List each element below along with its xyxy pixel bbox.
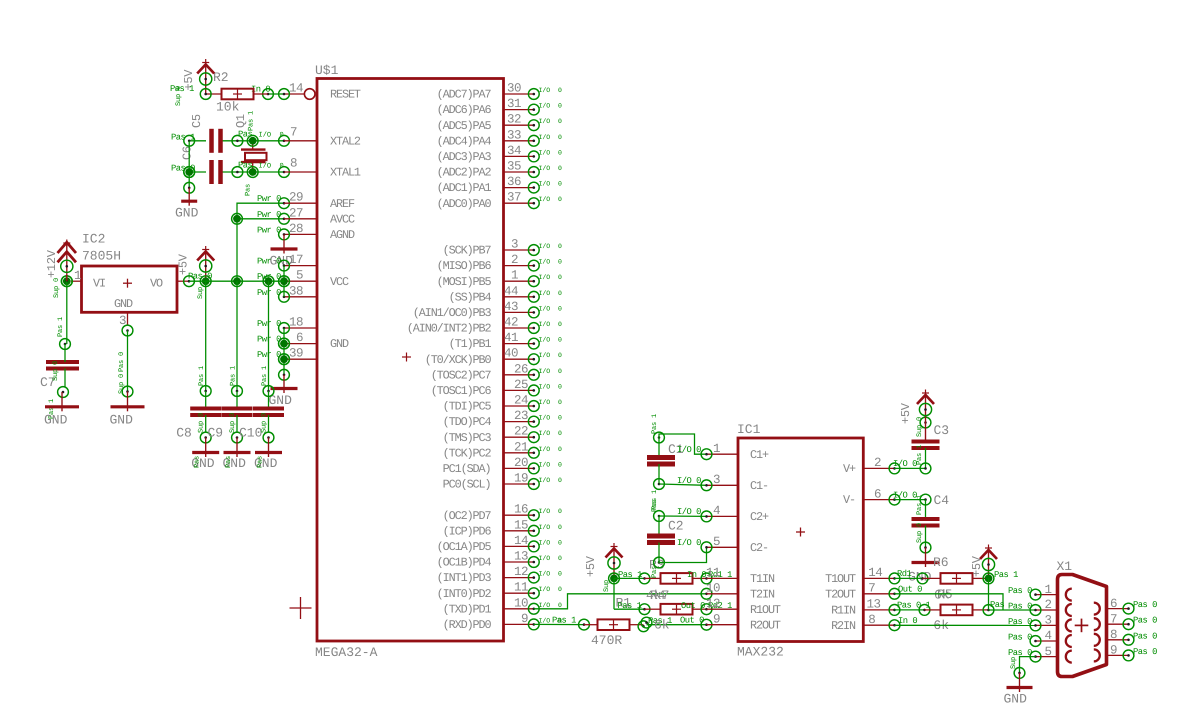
svg-text:GND: GND — [1004, 692, 1028, 707]
svg-text:R5: R5 — [937, 587, 953, 602]
svg-text:VO: VO — [150, 277, 163, 291]
pin 14 (OC1A)PD5 — [437, 534, 562, 554]
svg-text:Pas 1: Pas 1 — [57, 317, 65, 337]
pin 31 (ADC6)PA6 — [437, 97, 562, 117]
svg-text:I/O 0: I/O 0 — [539, 477, 563, 484]
pin 27 AVCC stub — [257, 206, 317, 220]
ground (X1) — [1004, 673, 1033, 707]
pin 3 GND stub — [119, 312, 133, 336]
svg-text:14: 14 — [289, 82, 303, 96]
svg-text:Pas 0: Pas 0 — [1008, 617, 1032, 627]
svg-text:Pwr 0: Pwr 0 — [257, 210, 281, 220]
svg-text:C1+: C1+ — [750, 448, 769, 462]
pin AGND circle — [279, 229, 290, 240]
svg-text:10: 10 — [514, 596, 528, 610]
svg-text:(TMS)PC3: (TMS)PC3 — [443, 431, 492, 445]
pin 19 PC0(SCL) — [443, 472, 562, 492]
svg-text:R6: R6 — [933, 555, 949, 570]
ground (C8) — [191, 438, 219, 472]
svg-text:(INT1)PD3: (INT1)PD3 — [437, 571, 492, 585]
svg-text:Pas 1: Pas 1 — [994, 570, 1018, 580]
svg-text:36: 36 — [507, 175, 521, 189]
svg-text:I/O 0: I/O 0 — [893, 491, 917, 501]
svg-text:9: 9 — [713, 613, 720, 627]
capacitor C2 — [647, 500, 684, 568]
pin 24 (TDI)PC5 — [443, 394, 562, 414]
svg-text:(TDO)PC4: (TDO)PC4 — [443, 415, 492, 429]
capacitor C3 — [912, 417, 950, 474]
svg-text:I/O 0: I/O 0 — [539, 181, 563, 188]
X1 pin 7 — [1107, 612, 1158, 629]
supply +5V (R2) — [170, 59, 214, 106]
svg-text:11: 11 — [514, 581, 528, 595]
junction AVCC — [232, 213, 243, 224]
svg-text:6: 6 — [1110, 597, 1117, 611]
capacitor C4 — [912, 493, 950, 553]
svg-text:6: 6 — [874, 487, 881, 501]
svg-text:23: 23 — [514, 409, 528, 423]
wire +5V junction to R5 — [988, 578, 990, 610]
svg-text:7: 7 — [290, 126, 297, 140]
svg-text:30: 30 — [507, 82, 521, 96]
wire rail to C9 — [230, 281, 238, 391]
ground (C10) — [254, 438, 282, 472]
svg-text:AGND: AGND — [330, 228, 355, 242]
svg-text:RESET: RESET — [330, 88, 361, 102]
svg-text:Pas 1: Pas 1 — [916, 445, 924, 465]
svg-text:I/O 0: I/O 0 — [259, 130, 284, 139]
svg-text:PC1(SDA): PC1(SDA) — [443, 462, 491, 476]
svg-text:4: 4 — [1045, 629, 1052, 643]
X1 pin 5 — [1008, 645, 1058, 662]
svg-text:I/O 0: I/O 0 — [677, 476, 701, 486]
resistor R3 — [645, 558, 733, 584]
junction VI — [61, 276, 72, 287]
X1 contacts — [1066, 589, 1100, 663]
svg-text:I/O 0: I/O 0 — [539, 274, 563, 281]
svg-text:Pas: Pas — [238, 129, 253, 139]
resistor R6 — [923, 555, 989, 603]
svg-text:C3: C3 — [934, 423, 950, 438]
pin 2 (MISO)PB6 — [437, 253, 562, 273]
supply +5V (MAX232 left) — [584, 543, 642, 592]
wire to DB9 pin2 — [989, 609, 1036, 611]
IC1 pin 6 stub — [863, 487, 900, 505]
svg-text:38: 38 — [289, 284, 303, 298]
svg-text:(TOSC1)PC6: (TOSC1)PC6 — [431, 384, 492, 398]
pin 11 (INT0)PD2 — [437, 581, 562, 601]
svg-text:14: 14 — [868, 566, 882, 580]
svg-text:(TXD)PD1: (TXD)PD1 — [443, 602, 492, 616]
svg-text:C9: C9 — [208, 426, 224, 441]
resistor R5 — [925, 600, 1005, 633]
wire XTAL1 net — [184, 167, 317, 178]
svg-text:14: 14 — [514, 534, 528, 548]
X1 pin 2 — [1008, 598, 1058, 615]
capacitor C9 — [208, 386, 253, 443]
pin 26 (TOSC2)PC7 — [431, 362, 562, 382]
pin 35 (ADC2)PA2 — [437, 160, 562, 180]
svg-text:0 1: 0 1 — [916, 601, 931, 611]
wire AVCC — [237, 213, 289, 224]
pin 34 (ADC3)PA3 — [437, 144, 562, 164]
svg-text:XTAL1: XTAL1 — [330, 166, 361, 180]
wire rail to C10 — [261, 281, 269, 391]
svg-text:I/O 0: I/O 0 — [539, 383, 563, 390]
svg-text:3: 3 — [1045, 614, 1052, 628]
svg-text:(TOSC2)PC7: (TOSC2)PC7 — [431, 368, 492, 382]
svg-text:(ADC7)PA7: (ADC7)PA7 — [437, 88, 492, 102]
pin 10 (TXD)PD1 — [443, 596, 562, 616]
svg-text:GND: GND — [114, 297, 133, 311]
pin 28 AGND stub — [257, 222, 317, 236]
svg-text:Pas 0: Pas 0 — [118, 352, 126, 372]
svg-text:I/O 0: I/O 0 — [539, 103, 563, 110]
junction XTAL1/crystal — [232, 167, 258, 178]
svg-text:39: 39 — [289, 347, 303, 361]
X1 pin 9 — [1107, 644, 1158, 661]
svg-text:37: 37 — [507, 191, 521, 205]
svg-text:Pas: Pas — [238, 161, 253, 171]
pin 41 (T1)PB1 — [449, 331, 562, 351]
IC1 pin 13 stub — [863, 598, 900, 616]
svg-text:R2IN: R2IN — [831, 619, 856, 633]
svg-text:C2: C2 — [668, 519, 684, 534]
svg-text:8: 8 — [868, 613, 875, 627]
svg-text:Pas: Pas — [225, 456, 233, 468]
svg-text:I/O 0: I/O 0 — [677, 538, 701, 548]
svg-text:26: 26 — [514, 362, 528, 376]
svg-text:In 0: In 0 — [898, 616, 917, 626]
capacitor C1 — [647, 414, 684, 510]
svg-text:C10: C10 — [239, 426, 262, 441]
svg-text:Sup 0: Sup 0 — [916, 417, 924, 437]
svg-text:T2IN: T2IN — [750, 587, 775, 601]
svg-text:(MOSI)PB5: (MOSI)PB5 — [437, 275, 492, 289]
IC1 pin 1 stub — [707, 442, 739, 456]
svg-text:27: 27 — [289, 206, 303, 220]
svg-text:11: 11 — [706, 566, 720, 580]
crystal Q1 — [234, 111, 267, 196]
X1 pin 4 — [1008, 629, 1058, 646]
svg-text:Pwr 0: Pwr 0 — [257, 257, 281, 267]
svg-text:MEGA32-A: MEGA32-A — [315, 645, 378, 660]
junction rail at +5V — [200, 276, 211, 287]
svg-text:32: 32 — [507, 113, 521, 127]
svg-text:15: 15 — [514, 518, 528, 532]
svg-text:3: 3 — [511, 238, 518, 252]
svg-text:I/O 0: I/O 0 — [539, 555, 563, 562]
svg-text:AREF: AREF — [330, 197, 355, 211]
wire PD0 to R1 — [534, 615, 590, 630]
svg-text:Pas 1: Pas 1 — [171, 133, 195, 143]
junction +5V/R6 — [983, 573, 994, 584]
svg-text:Pas: Pas — [245, 184, 253, 196]
svg-text:19: 19 — [514, 472, 528, 486]
svg-text:I/O 0: I/O 0 — [539, 446, 563, 453]
svg-text:Pas 0: Pas 0 — [1008, 586, 1032, 596]
svg-text:+5V: +5V — [584, 555, 598, 577]
svg-text:6k: 6k — [654, 618, 670, 633]
svg-text:I/O 0: I/O 0 — [677, 445, 701, 455]
wire C1+ to pin1 — [659, 434, 712, 460]
svg-text:T2OUT: T2OUT — [825, 587, 856, 601]
svg-text:I/O 0: I/O 0 — [539, 539, 563, 546]
svg-text:8: 8 — [290, 157, 297, 171]
wire R1 to R2OUT — [638, 615, 712, 632]
pin 29 AREF stub — [257, 191, 317, 205]
IC1 pin 14 stub — [863, 566, 900, 584]
pin 16 (OC2)PD7 — [443, 503, 562, 523]
U$1 left pin name labels — [330, 88, 361, 352]
svg-text:(SS)PB4: (SS)PB4 — [449, 290, 492, 304]
ground (IC2) — [110, 392, 145, 428]
svg-text:C8: C8 — [176, 426, 192, 441]
wire X1 pin5 to GND — [1010, 657, 1036, 679]
svg-text:+5V: +5V — [970, 555, 984, 577]
svg-text:C1-: C1- — [750, 479, 768, 493]
supply +5V (C3) — [899, 390, 934, 425]
pin 15 (ICP)PD6 — [443, 518, 562, 538]
svg-text:(T0/XCK)PB0: (T0/XCK)PB0 — [425, 353, 492, 367]
svg-text:I/O 0: I/O 0 — [539, 134, 563, 141]
wire PD1 to T2IN — [534, 588, 712, 608]
IC IC1 MAX232 body — [737, 422, 863, 660]
svg-text:I/O 0: I/O 0 — [539, 415, 563, 422]
U$1 origin cross — [402, 353, 411, 362]
supply +5V (DB9) — [970, 545, 1018, 581]
svg-text:24: 24 — [514, 394, 528, 408]
wire C2+ to pin4 — [659, 507, 712, 522]
svg-text:13: 13 — [514, 550, 528, 564]
svg-text:3: 3 — [713, 473, 720, 487]
svg-text:41: 41 — [504, 331, 518, 345]
svg-text:MAX232: MAX232 — [737, 645, 784, 660]
junction +5V/T1IN — [609, 573, 620, 584]
svg-text:XTAL2: XTAL2 — [330, 134, 361, 148]
svg-text:T1IN: T1IN — [750, 572, 775, 586]
svg-text:I/O 0: I/O 0 — [539, 430, 563, 437]
svg-text:I/O 0: I/O 0 — [539, 586, 563, 593]
svg-text:PC0(SCL): PC0(SCL) — [443, 478, 491, 492]
svg-text:V-: V- — [843, 493, 855, 507]
svg-text:1: 1 — [713, 442, 720, 456]
pin 44 (SS)PB4 — [449, 284, 562, 304]
svg-text:I/O 0: I/O 0 — [893, 459, 917, 469]
supply +12V — [45, 240, 76, 299]
IC1 pin 5 stub — [707, 535, 739, 549]
X1 pin 8 — [1107, 628, 1158, 645]
junction rail C9/AVCC column — [232, 276, 243, 287]
svg-text:31: 31 — [507, 97, 521, 111]
svg-text:I/O 0: I/O 0 — [539, 461, 563, 468]
svg-text:1: 1 — [1045, 583, 1052, 597]
svg-text:C2-: C2- — [750, 541, 768, 555]
IC1 pin name labels — [750, 448, 856, 633]
sheet origin cross — [290, 597, 312, 619]
svg-text:9: 9 — [1110, 644, 1117, 658]
svg-text:(ADC0)PA0: (ADC0)PA0 — [437, 197, 492, 211]
connector X1 DB9 body — [1057, 559, 1107, 677]
pin 1 VI stub — [71, 269, 82, 283]
svg-text:C4: C4 — [934, 493, 950, 508]
svg-text:Pas 1: Pas 1 — [552, 615, 576, 625]
svg-text:Sup: Sup — [1010, 657, 1018, 669]
junction rail C10 column — [263, 276, 274, 287]
wire R1IN to R5 — [895, 601, 931, 616]
svg-text:7805H: 7805H — [82, 249, 121, 264]
svg-text:4: 4 — [713, 504, 720, 518]
resistor R2 — [206, 70, 268, 115]
ground (C7) — [44, 392, 79, 428]
ground (U$1 GND pins) — [269, 375, 298, 408]
svg-text:V+: V+ — [843, 462, 856, 476]
IC U$1 MEGA32-A body — [315, 63, 504, 660]
wire VCC pins vertical — [283, 266, 285, 297]
svg-text:I/O 0: I/O 0 — [539, 305, 563, 312]
svg-text:(OC1B)PD4: (OC1B)PD4 — [437, 556, 492, 570]
svg-text:Pas 1: Pas 1 — [198, 366, 206, 386]
svg-text:(SCK)PB7: (SCK)PB7 — [443, 244, 492, 258]
svg-text:(T1)PB1: (T1)PB1 — [449, 337, 492, 351]
svg-text:(ADC6)PA6: (ADC6)PA6 — [437, 103, 492, 117]
svg-text:(AIN0/INT2)PB2: (AIN0/INT2)PB2 — [407, 322, 492, 336]
svg-text:5: 5 — [713, 535, 720, 549]
svg-text:I/O 0: I/O 0 — [539, 259, 563, 266]
svg-text:Sup 0: Sup 0 — [198, 413, 206, 433]
junction VCC pin5 — [279, 276, 290, 287]
pin 12 (INT1)PD3 — [437, 565, 562, 585]
svg-text:Sup 0: Sup 0 — [52, 361, 60, 381]
svg-text:7: 7 — [1110, 612, 1117, 626]
svg-text:7: 7 — [868, 582, 875, 596]
pin 1 (MOSI)PB5 — [437, 269, 562, 289]
svg-text:1: 1 — [74, 269, 81, 283]
X1 pin 6 — [1107, 597, 1158, 614]
junction GND pin39 — [279, 354, 290, 365]
IC1 pin 2 stub — [863, 456, 900, 474]
svg-text:(OC1A)PD5: (OC1A)PD5 — [437, 540, 492, 554]
svg-text:40: 40 — [504, 347, 518, 361]
svg-text:GND: GND — [330, 337, 349, 351]
svg-text:X1: X1 — [1057, 559, 1073, 574]
svg-text:12: 12 — [706, 597, 720, 611]
svg-text:Pas 1: Pas 1 — [261, 366, 269, 386]
svg-text:(ADC3)PA3: (ADC3)PA3 — [437, 150, 492, 164]
svg-text:I/O 0: I/O 0 — [539, 602, 563, 609]
wire junction to R3 — [614, 566, 659, 584]
svg-text:(ADC5)PA5: (ADC5)PA5 — [437, 119, 492, 133]
svg-text:Sup: Sup — [197, 287, 205, 299]
svg-text:43: 43 — [504, 300, 518, 314]
svg-text:I/O 0: I/O 0 — [539, 399, 563, 406]
capacitor C8 — [176, 386, 221, 443]
pin 39 stub — [257, 347, 317, 365]
svg-text:Pas 1: Pas 1 — [916, 495, 924, 515]
wire 7805 GND — [118, 331, 133, 397]
svg-text:I/O 0: I/O 0 — [539, 149, 563, 156]
svg-text:(OC2)PD7: (OC2)PD7 — [443, 509, 492, 523]
wire C2- to pin5 — [659, 538, 712, 563]
wire XTAL2 net — [184, 135, 317, 146]
IC1 pin 7 stub — [863, 582, 900, 600]
pin 18 stub — [257, 316, 317, 334]
svg-text:42: 42 — [504, 316, 518, 330]
svg-text:Sup 0: Sup 0 — [261, 413, 269, 433]
svg-text:33: 33 — [507, 128, 521, 142]
pin 21 (TCK)PC2 — [443, 440, 562, 460]
svg-text:Pwr 0: Pwr 0 — [257, 194, 281, 204]
svg-text:Pas 1: Pas 1 — [618, 601, 642, 611]
svg-text:25: 25 — [514, 378, 528, 392]
IC1 pin 10 stub — [706, 582, 738, 596]
wire 5V rail — [189, 280, 284, 282]
svg-text:(ADC2)PA2: (ADC2)PA2 — [437, 166, 492, 180]
svg-text:U$1: U$1 — [315, 63, 339, 78]
svg-text:VI: VI — [93, 277, 105, 291]
pin 14 RESET bubble — [284, 89, 315, 100]
svg-text:AVCC: AVCC — [330, 212, 355, 226]
svg-text:I/O 0: I/O 0 — [539, 290, 563, 297]
svg-text:In 0: In 0 — [687, 570, 706, 580]
wire rail to C8 — [198, 281, 206, 391]
svg-text:Pas: Pas — [194, 456, 202, 468]
ground (C5/C6) — [175, 188, 199, 221]
svg-text:Out 0: Out 0 — [898, 585, 922, 595]
pin 42 (AIN0/INT2)PB2 — [407, 316, 562, 336]
resistor R1 470R — [584, 596, 644, 649]
svg-text:I/O 0: I/O 0 — [539, 508, 563, 515]
X1 pin 3 — [1008, 614, 1058, 631]
X1 pin 1 — [1008, 583, 1058, 600]
svg-text:I/O 0: I/O 0 — [539, 87, 563, 94]
svg-text:Pas 1: Pas 1 — [248, 111, 256, 131]
svg-text:5: 5 — [296, 269, 303, 283]
svg-text:Pas 1: Pas 1 — [230, 366, 238, 386]
capacitor C10 — [239, 386, 284, 443]
svg-text:C6: C6 — [181, 146, 195, 160]
svg-text:(ADC4)PA4: (ADC4)PA4 — [437, 134, 492, 148]
svg-text:2: 2 — [1045, 598, 1052, 612]
pin 32 (ADC5)PA5 — [437, 113, 562, 133]
svg-text:Rd1: Rd1 — [897, 569, 912, 579]
svg-text:Sup 0: Sup 0 — [53, 278, 61, 298]
svg-text:T1OUT: T1OUT — [825, 572, 856, 586]
svg-text:Pas: Pas — [651, 500, 659, 512]
wire VI to C7 — [57, 281, 70, 349]
svg-text:2: 2 — [511, 253, 518, 267]
svg-text:I/O 0: I/O 0 — [539, 321, 563, 328]
svg-text:R3: R3 — [649, 558, 665, 573]
svg-text:(MISO)PB6: (MISO)PB6 — [437, 259, 492, 273]
svg-text:470R: 470R — [591, 633, 622, 648]
svg-text:12: 12 — [514, 565, 528, 579]
svg-text:Pas 0: Pas 0 — [1133, 616, 1157, 626]
wire V- to C4 — [893, 491, 926, 501]
wire R2 to RESET — [251, 82, 303, 100]
svg-text:Pas 0: Pas 0 — [1133, 631, 1157, 641]
IC1 pin 12 stub — [706, 597, 738, 611]
pin 40 (T0/XCK)PB0 — [425, 347, 562, 367]
svg-text:2: 2 — [874, 456, 881, 470]
svg-text:(RXD)PD0: (RXD)PD0 — [443, 618, 492, 632]
svg-text:GND: GND — [175, 206, 199, 221]
svg-text:R2: R2 — [213, 70, 229, 85]
svg-text:(TDI)PC5: (TDI)PC5 — [443, 400, 492, 414]
pin VO stub — [177, 253, 195, 286]
svg-text:I/O 0: I/O 0 — [539, 337, 563, 344]
svg-text:Pas 0: Pas 0 — [171, 164, 195, 174]
